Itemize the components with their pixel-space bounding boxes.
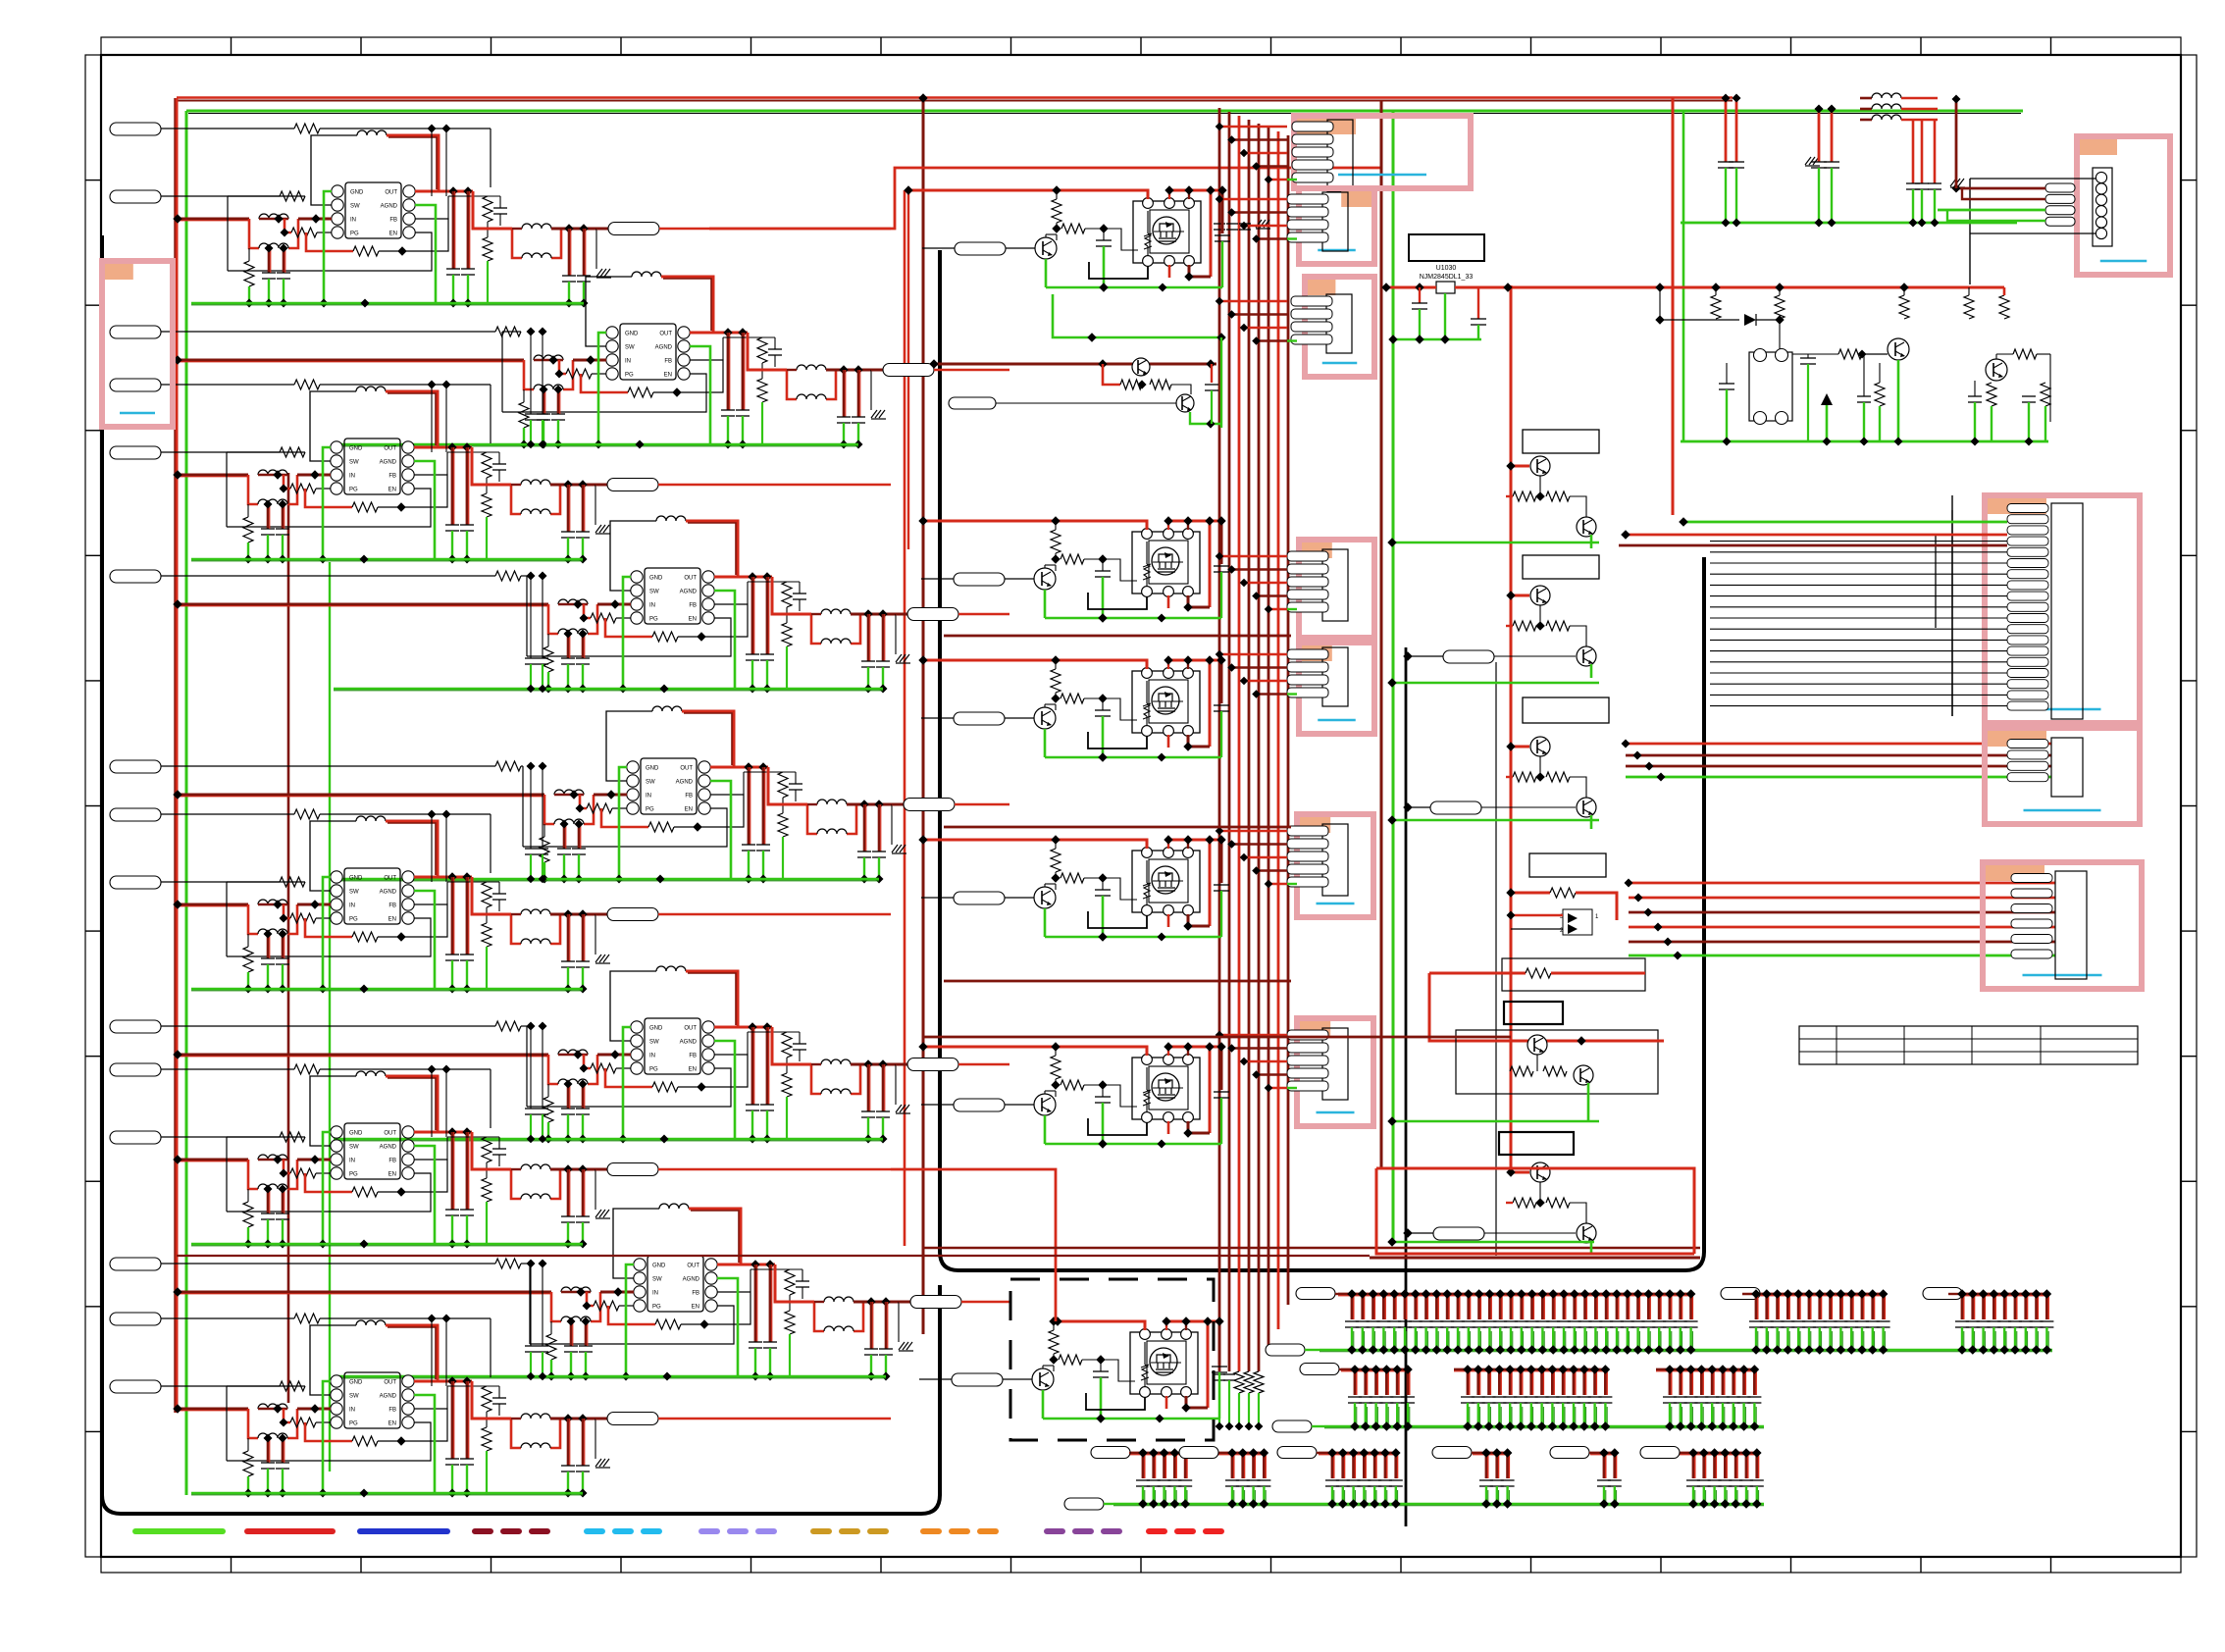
- svg-text:GND: GND: [646, 766, 659, 772]
- svg-text:U1030: U1030: [1436, 265, 1457, 272]
- svg-text:GND: GND: [649, 576, 663, 582]
- svg-text:AGND: AGND: [381, 204, 398, 210]
- svg-text:EN: EN: [685, 807, 693, 813]
- svg-text:IN: IN: [349, 1159, 355, 1164]
- svg-text:IN: IN: [625, 359, 631, 365]
- svg-text:FB: FB: [685, 794, 693, 800]
- svg-text:SW: SW: [349, 1145, 359, 1151]
- svg-text:AGND: AGND: [380, 460, 397, 466]
- svg-text:GND: GND: [349, 1131, 363, 1137]
- svg-text:FB: FB: [689, 1054, 697, 1059]
- svg-text:NJM2845DL1_33: NJM2845DL1_33: [1420, 274, 1474, 281]
- svg-text:GND: GND: [649, 1026, 663, 1032]
- svg-text:IN: IN: [646, 794, 651, 800]
- svg-text:IN: IN: [349, 474, 355, 480]
- svg-text:OUT: OUT: [684, 1026, 697, 1032]
- svg-text:EN: EN: [388, 488, 396, 493]
- svg-text:FB: FB: [664, 359, 672, 365]
- svg-text:GND: GND: [349, 876, 363, 882]
- svg-text:IN: IN: [350, 218, 356, 224]
- svg-text:PG: PG: [349, 1421, 358, 1427]
- svg-text:PG: PG: [350, 232, 359, 237]
- svg-text:IN: IN: [349, 903, 355, 909]
- svg-text:PG: PG: [649, 617, 658, 623]
- svg-text:SW: SW: [646, 780, 655, 786]
- svg-text:EN: EN: [692, 1305, 699, 1311]
- svg-text:PG: PG: [652, 1305, 661, 1311]
- svg-text:AGND: AGND: [380, 890, 397, 896]
- svg-text:PG: PG: [349, 488, 358, 493]
- svg-text:AGND: AGND: [676, 780, 694, 786]
- svg-text:IN: IN: [652, 1291, 658, 1297]
- svg-text:SW: SW: [349, 890, 359, 896]
- svg-text:SW: SW: [349, 460, 359, 466]
- svg-text:AGND: AGND: [683, 1277, 700, 1283]
- svg-text:AGND: AGND: [680, 1040, 698, 1046]
- svg-text:EN: EN: [689, 1067, 697, 1073]
- svg-text:GND: GND: [350, 190, 364, 196]
- svg-text:EN: EN: [388, 1421, 396, 1427]
- svg-text:AGND: AGND: [380, 1145, 397, 1151]
- svg-text:IN: IN: [349, 1408, 355, 1414]
- svg-text:OUT: OUT: [680, 766, 693, 772]
- svg-text:SW: SW: [349, 1394, 359, 1400]
- svg-text:OUT: OUT: [384, 876, 396, 882]
- svg-text:OUT: OUT: [684, 576, 697, 582]
- svg-text:GND: GND: [652, 1264, 666, 1269]
- svg-text:AGND: AGND: [680, 590, 698, 595]
- svg-text:FB: FB: [689, 603, 697, 609]
- svg-text:OUT: OUT: [385, 190, 397, 196]
- svg-text:OUT: OUT: [384, 1380, 396, 1386]
- svg-text:PG: PG: [646, 807, 654, 813]
- svg-text:GND: GND: [349, 446, 363, 452]
- svg-text:EN: EN: [388, 1172, 396, 1178]
- svg-text:FB: FB: [388, 474, 396, 480]
- svg-text:EN: EN: [388, 917, 396, 923]
- svg-text:SW: SW: [625, 345, 635, 351]
- svg-text:GND: GND: [349, 1380, 363, 1386]
- svg-text:FB: FB: [388, 903, 396, 909]
- svg-text:OUT: OUT: [687, 1264, 699, 1269]
- svg-text:OUT: OUT: [384, 1131, 396, 1137]
- svg-text:AGND: AGND: [655, 345, 673, 351]
- svg-text:FB: FB: [692, 1291, 699, 1297]
- svg-text:FB: FB: [389, 218, 397, 224]
- svg-text:SW: SW: [649, 1040, 659, 1046]
- svg-text:SW: SW: [350, 204, 360, 210]
- svg-text:EN: EN: [389, 232, 397, 237]
- svg-text:PG: PG: [625, 373, 634, 379]
- svg-text:PG: PG: [349, 917, 358, 923]
- svg-text:GND: GND: [625, 332, 639, 337]
- svg-text:AGND: AGND: [380, 1394, 397, 1400]
- svg-text:FB: FB: [388, 1408, 396, 1414]
- svg-text:SW: SW: [649, 590, 659, 595]
- svg-text:OUT: OUT: [384, 446, 396, 452]
- svg-text:EN: EN: [664, 373, 672, 379]
- svg-text:PG: PG: [649, 1067, 658, 1073]
- svg-text:IN: IN: [649, 603, 655, 609]
- svg-text:FB: FB: [388, 1159, 396, 1164]
- svg-text:SW: SW: [652, 1277, 662, 1283]
- svg-text:IN: IN: [649, 1054, 655, 1059]
- svg-text:PG: PG: [349, 1172, 358, 1178]
- svg-text:EN: EN: [689, 617, 697, 623]
- svg-text:OUT: OUT: [659, 332, 672, 337]
